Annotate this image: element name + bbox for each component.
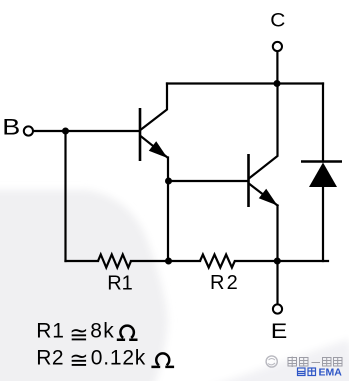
svg-text:≅: ≅ — [69, 347, 88, 373]
svg-text:8k: 8k — [90, 320, 115, 343]
svg-text:B: B — [2, 115, 20, 139]
svg-text:EMA: EMA — [319, 367, 343, 379]
svg-text:E: E — [271, 319, 288, 343]
svg-text:R2: R2 — [210, 272, 240, 294]
svg-text:R1: R1 — [36, 320, 65, 343]
svg-text:C: C — [270, 10, 285, 31]
svg-text:≅: ≅ — [69, 322, 88, 348]
svg-text:R1: R1 — [107, 273, 133, 295]
svg-text:k: k — [135, 347, 146, 370]
svg-text:R2: R2 — [36, 347, 64, 370]
svg-text:0.12: 0.12 — [91, 347, 135, 370]
